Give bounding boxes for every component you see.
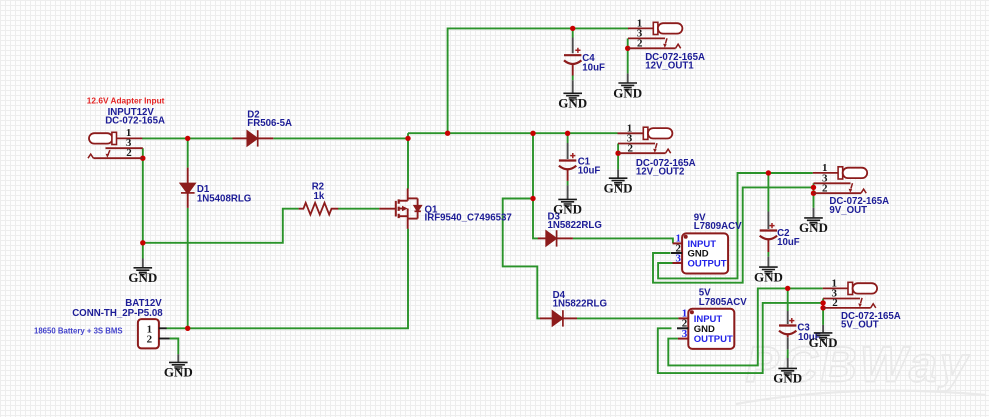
diode D4 1N5822RLG <box>540 310 577 326</box>
diode D2 FR506-5A <box>233 130 274 146</box>
capacitor C1 10uF <box>559 153 576 181</box>
node 5V_OUT join junction <box>820 300 825 305</box>
node 9V_OUT join junction <box>811 185 816 190</box>
node 9V_OUT pin2 junction <box>811 191 816 196</box>
node rail/top-loop junction <box>445 131 450 136</box>
wire battery pin2 to ground <box>170 339 179 355</box>
node top wire/C4 junction <box>570 26 575 31</box>
svg-text:2: 2 <box>147 334 153 346</box>
wire battery GND pin <box>177 354 179 362</box>
wire 9V regulator output loop <box>658 173 813 278</box>
svg-text:GND: GND <box>164 365 193 380</box>
svg-text:3: 3 <box>682 328 688 340</box>
ground C1 <box>553 199 582 216</box>
node bottom wire junction <box>140 240 145 245</box>
pin numbers 12V_OUT2 <box>627 122 634 154</box>
svg-text:CONN-TH_2P-P5.08: CONN-TH_2P-P5.08 <box>72 308 163 319</box>
pin numbers U2 <box>682 308 688 340</box>
node input pin2 junction <box>140 156 145 161</box>
svg-text:GND: GND <box>799 220 828 235</box>
svg-text:L7809ACV: L7809ACV <box>694 221 742 232</box>
transistor Q1 IRF9540 <box>379 188 421 228</box>
wire D3 to 9V regulator input <box>573 238 673 243</box>
ground battery <box>164 362 193 379</box>
ground C2 <box>754 267 783 284</box>
svg-text:FR506-5A: FR506-5A <box>247 118 292 129</box>
svg-text:10uF: 10uF <box>777 237 800 248</box>
svg-text:1N5822RLG: 1N5822RLG <box>553 299 607 310</box>
wire battery pin1 to Q1 drain <box>166 229 408 329</box>
wire 5V_OUT pin2 to ground <box>822 299 824 325</box>
wire input GND pin <box>142 259 144 268</box>
connector 9V_OUT DC-072-165A <box>813 167 867 193</box>
svg-text:9V_OUT: 9V_OUT <box>829 205 867 216</box>
wire 9V_OUT pin2 to ground <box>813 183 815 208</box>
svg-text:2: 2 <box>822 183 828 195</box>
svg-text:2: 2 <box>637 37 643 49</box>
diode D3 1N5822RLG <box>538 230 573 246</box>
wire node A vertical to Q1 source <box>407 133 409 188</box>
svg-text:DC-072-165A: DC-072-165A <box>105 116 165 127</box>
wire C4 junction <box>572 28 574 37</box>
pin numbers U1 <box>676 233 682 265</box>
wire bottom horizontal to R2 <box>143 209 299 243</box>
node OUT1 pin2 junction <box>625 46 630 51</box>
wire C3 top <box>787 288 789 311</box>
node 9V rail/C2 junction <box>766 170 771 175</box>
wire 5V regulator GND loop <box>658 303 823 373</box>
connector J1 INPUT12V DC-072-165A <box>88 132 143 158</box>
diode D1 1N5408RLG <box>181 168 195 208</box>
wire input pin1 to D2 <box>142 137 233 139</box>
wire 5V regulator output loop <box>668 288 822 365</box>
capacitor C2 10uF <box>760 223 777 252</box>
wire C2 top <box>767 173 769 212</box>
ground input <box>128 268 157 285</box>
svg-text:2: 2 <box>126 147 132 159</box>
wire D4 to 5V regulator input <box>577 317 678 319</box>
svg-text:2: 2 <box>832 297 838 309</box>
wire C4 bottom <box>572 76 574 81</box>
svg-text:GND: GND <box>128 270 157 285</box>
wire 5V_OUT GND pin <box>822 325 824 333</box>
svg-text:1N5822RLG: 1N5822RLG <box>548 220 602 231</box>
capacitor C3 10uF <box>779 318 796 337</box>
wire D1 cathode to battery <box>187 208 189 328</box>
wire OUT1 GND pin <box>627 73 629 82</box>
wire C3 pins <box>787 311 789 368</box>
svg-text:L7805ACV: L7805ACV <box>699 297 747 308</box>
ground C3 <box>773 368 802 385</box>
pin numbers BT1 <box>147 324 153 346</box>
wire input GND drop <box>142 243 144 259</box>
wire C4 pins <box>572 38 574 93</box>
wire C3 bottom <box>787 349 789 358</box>
svg-text:5V_OUT: 5V_OUT <box>841 319 879 330</box>
capacitor C4 10uF <box>564 48 581 76</box>
ground 9V_OUT <box>799 218 828 235</box>
watermark <box>746 337 970 393</box>
svg-text:GND: GND <box>773 371 802 386</box>
ground 5V_OUT <box>809 333 838 350</box>
op-amp U1 L7809ACV 9V regulator <box>671 233 728 273</box>
svg-text:1k: 1k <box>314 191 325 202</box>
svg-text:2: 2 <box>627 142 633 154</box>
connector 5V_OUT DC-072-165A <box>823 282 877 308</box>
svg-text:GND: GND <box>553 202 582 217</box>
svg-text:12V_OUT2: 12V_OUT2 <box>636 166 684 177</box>
node branch split junction <box>530 196 535 201</box>
wire rail to top loop <box>448 28 629 133</box>
node rail/Q1 junction <box>405 136 410 141</box>
pin numbers input connector <box>126 127 132 159</box>
ground C4 <box>558 93 587 110</box>
svg-text:OUTPUT: OUTPUT <box>688 258 727 269</box>
connector BT1 BAT12V CONN-TH_2P-P5.08 <box>138 319 170 348</box>
wire OUT2 GND pin <box>617 169 619 177</box>
ground OUT1 <box>613 83 642 100</box>
node battery/D1 junction <box>185 326 190 331</box>
svg-text:GND: GND <box>613 85 642 100</box>
connector 12V_OUT2 DC-072-165A <box>618 127 673 153</box>
gray cap/gnd pin segments <box>143 38 823 368</box>
node OUT2 pin2 junction <box>615 151 620 156</box>
svg-text:GND: GND <box>809 335 838 350</box>
wire C1 top <box>567 133 569 143</box>
svg-text:18650 Battery + 3S BMS: 18650 Battery + 3S BMS <box>34 327 123 336</box>
svg-text:3: 3 <box>676 252 682 264</box>
node rail/D1 junction <box>185 136 190 141</box>
wire D1 anode <box>187 138 189 167</box>
svg-text:12.6V Adapter Input: 12.6V Adapter Input <box>87 95 165 105</box>
svg-text:IRF9540_C7496537: IRF9540_C7496537 <box>425 212 512 223</box>
wire C2 pins <box>767 212 769 267</box>
svg-text:1N5408RLG: 1N5408RLG <box>197 193 251 204</box>
ground OUT2 <box>604 178 633 195</box>
node rail/branch junction <box>530 131 535 136</box>
svg-text:GND: GND <box>558 96 587 111</box>
wire D2 to node A <box>273 137 408 139</box>
op-amp U2 L7805ACV 5V regulator <box>677 309 734 349</box>
connector 12V_OUT1 DC-072-165A <box>628 22 682 48</box>
pin numbers 9V_OUT <box>822 162 828 195</box>
svg-text:10uF: 10uF <box>578 165 601 176</box>
node 5V rail/C3 junction <box>785 286 790 291</box>
node rail/C1 junction <box>565 131 570 136</box>
wire C2 bottom <box>767 252 769 257</box>
wire input pin3-2 down <box>142 148 144 243</box>
wire C1 bottom <box>567 181 569 186</box>
wire C1 pins <box>567 143 569 199</box>
svg-text:GND: GND <box>604 181 633 196</box>
pin numbers 12V_OUT1 <box>637 17 643 49</box>
wire OUT1 pin2 to ground <box>627 38 629 73</box>
pin numbers 5V_OUT <box>832 277 839 309</box>
wire 9V regulator GND loop <box>653 187 814 282</box>
svg-text:10uF: 10uF <box>582 62 605 73</box>
wire R2 to Q1 gate <box>338 208 379 210</box>
svg-text:12V_OUT1: 12V_OUT1 <box>645 61 694 72</box>
wire 9V_OUT GND pin <box>813 208 815 218</box>
resistor R2 1k <box>299 203 339 215</box>
wire rail to D3 branch <box>533 133 538 238</box>
wire OUT2 pin2 to ground <box>617 144 619 170</box>
node 5V_OUT pin2 junction <box>820 305 825 310</box>
svg-text:GND: GND <box>754 269 783 284</box>
wire 12V rail <box>408 132 618 134</box>
wire branch to D4 <box>503 199 540 319</box>
svg-text:OUTPUT: OUTPUT <box>694 334 733 345</box>
